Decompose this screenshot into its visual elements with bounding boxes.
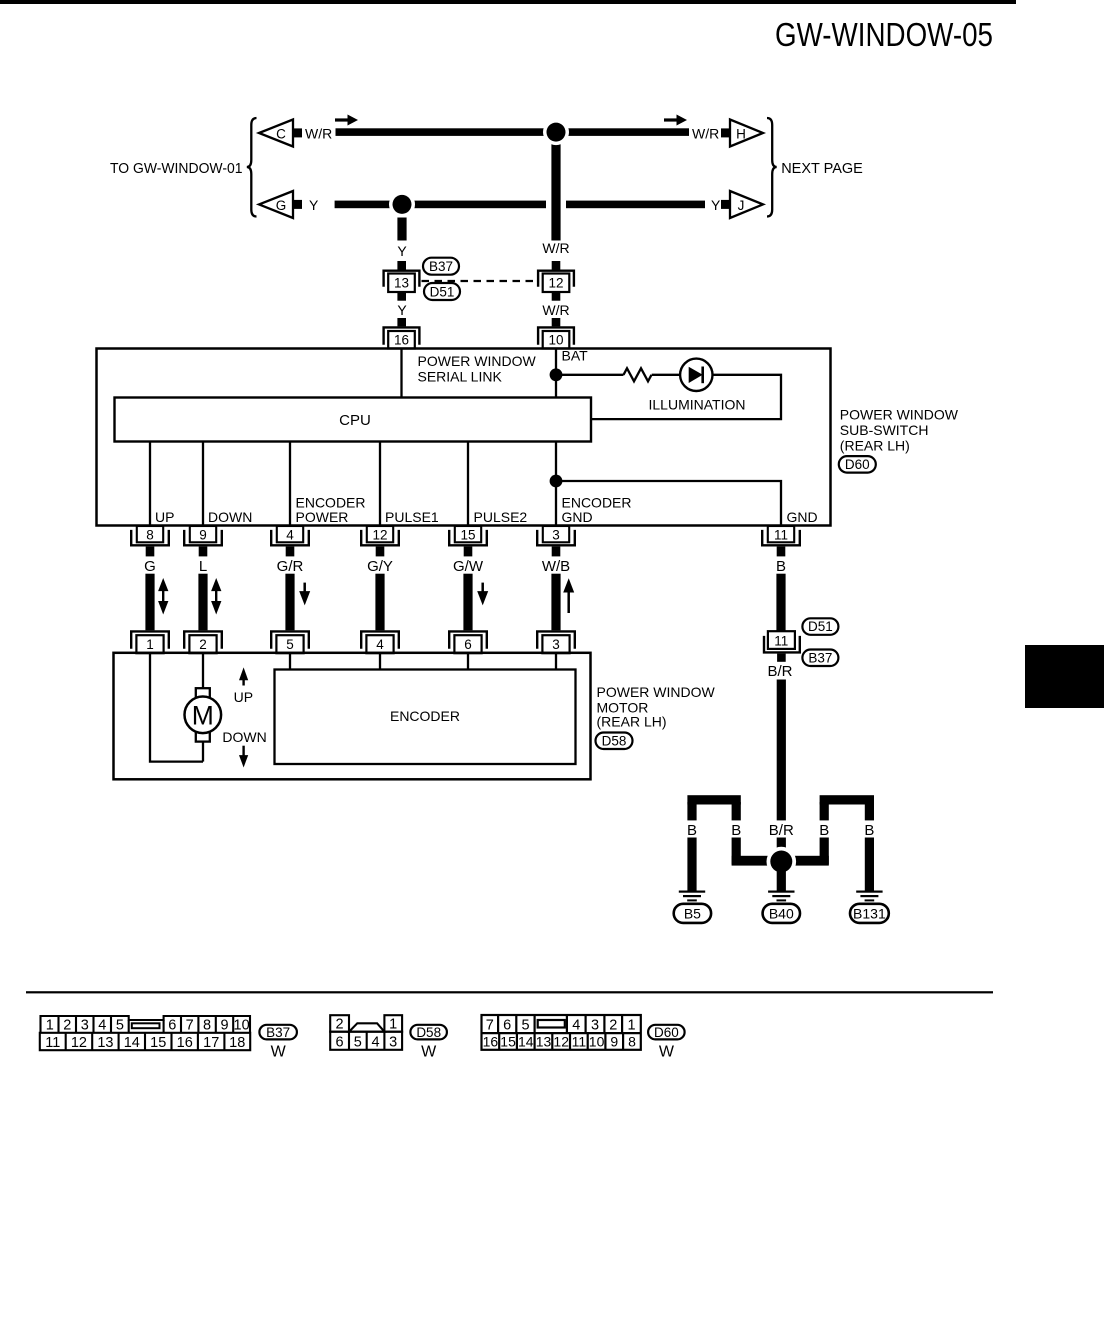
svg-text:TO GW-WINDOW-01: TO GW-WINDOW-01 — [110, 161, 243, 177]
oval B5 — [674, 904, 711, 923]
svg-text:5: 5 — [116, 1018, 124, 1034]
svg-text:B: B — [819, 822, 829, 839]
connector 4 — [361, 631, 399, 648]
svg-text:PULSE2: PULSE2 — [474, 509, 528, 525]
svg-text:B131: B131 — [853, 905, 886, 921]
svg-text:DOWN: DOWN — [222, 729, 266, 745]
left ground loop right leg lower — [732, 838, 741, 865]
svg-text:15: 15 — [460, 527, 475, 542]
junction dot ground — [767, 847, 797, 877]
svg-text:W: W — [659, 1044, 675, 1061]
svg-text:10: 10 — [234, 1018, 250, 1034]
svg-text:B: B — [687, 822, 697, 839]
junction node BAT — [550, 368, 563, 381]
svg-text:D60: D60 — [845, 457, 870, 472]
svg-text:W/R: W/R — [305, 126, 332, 142]
svg-text:NEXT PAGE: NEXT PAGE — [781, 161, 863, 177]
svg-text:5: 5 — [354, 1034, 362, 1050]
wire CPU to pin 3 — [555, 442, 557, 526]
svg-text:B5: B5 — [684, 905, 701, 921]
svg-text:B37: B37 — [429, 259, 453, 274]
connector table D60 — [482, 1015, 641, 1050]
connector 3 motor — [537, 631, 575, 648]
pin 10 — [538, 327, 574, 344]
connector 13 — [384, 271, 420, 287]
wire CPU to pin 15 — [467, 442, 469, 526]
svg-text:14: 14 — [124, 1035, 140, 1051]
left brace — [247, 118, 257, 217]
svg-text:D51: D51 — [808, 619, 833, 634]
svg-text:1: 1 — [627, 1018, 635, 1034]
wire resistor to diode — [652, 374, 680, 376]
svg-text:B/R: B/R — [769, 822, 794, 839]
wire G/R — [285, 574, 294, 631]
wire stub below connector 13 — [397, 292, 406, 301]
wire G — [145, 574, 154, 631]
connector 12 — [538, 271, 574, 287]
wire diode to corner — [592, 375, 781, 419]
left ground loop top bar — [687, 795, 740, 804]
right ground loop left leg lower — [820, 838, 829, 865]
svg-text:15: 15 — [150, 1035, 166, 1051]
svg-text:6: 6 — [168, 1018, 176, 1034]
CPU box — [115, 398, 592, 442]
svg-text:J: J — [738, 198, 745, 213]
terminal square G — [293, 200, 302, 209]
svg-text:Y: Y — [397, 243, 407, 259]
arrow down motor — [242, 746, 244, 756]
oval D51 bottom — [424, 283, 460, 300]
svg-text:W/R: W/R — [692, 126, 719, 142]
pin 12 — [367, 526, 393, 542]
wire Y bus left segment — [335, 201, 546, 209]
svg-text:C: C — [276, 127, 286, 142]
wire stub above pin 10 — [552, 318, 561, 326]
svg-text:3: 3 — [389, 1034, 397, 1050]
wire BAT branch to illumination — [556, 374, 624, 376]
svg-text:L: L — [199, 558, 207, 575]
svg-text:16: 16 — [483, 1034, 499, 1050]
svg-text:Y: Y — [309, 197, 319, 213]
svg-text:18: 18 — [229, 1035, 245, 1051]
svg-text:11: 11 — [774, 527, 788, 542]
svg-text:2: 2 — [609, 1018, 617, 1034]
wire conn1 to motor — [150, 654, 203, 762]
junction node encoder gnd — [550, 475, 563, 488]
svg-text:16: 16 — [394, 333, 409, 348]
svg-text:16: 16 — [177, 1035, 193, 1051]
svg-text:9: 9 — [220, 1018, 228, 1034]
svg-text:GND: GND — [562, 509, 593, 525]
wire W/R vertical drop — [551, 137, 560, 241]
svg-text:4: 4 — [98, 1018, 106, 1034]
svg-text:G: G — [276, 198, 287, 213]
wire B/R long upper — [777, 680, 786, 821]
left ground loop bottom bar — [732, 856, 782, 866]
power window motor box D58 — [114, 653, 591, 780]
wire conn3 to encoder — [555, 654, 557, 670]
svg-text:POWER: POWER — [296, 509, 349, 525]
svg-text:D58: D58 — [416, 1025, 441, 1040]
left ground loop left leg upper — [687, 802, 696, 820]
svg-text:G/Y: G/Y — [367, 558, 393, 575]
pin 3 — [543, 526, 569, 542]
wire Y vertical drop — [397, 218, 406, 241]
svg-text:B: B — [776, 558, 786, 575]
svg-text:2: 2 — [336, 1016, 344, 1032]
oval D58 footer — [410, 1025, 447, 1040]
right ground loop right leg upper — [865, 802, 874, 820]
svg-text:8: 8 — [628, 1034, 636, 1050]
svg-text:G/R: G/R — [277, 558, 304, 575]
svg-text:H: H — [736, 127, 746, 142]
svg-text:13: 13 — [394, 276, 409, 291]
svg-text:ILLUMINATION: ILLUMINATION — [649, 397, 746, 413]
junction dot W/R bus — [543, 119, 569, 145]
oval B37 top — [423, 258, 459, 275]
wire encoder gnd rail to pin 11 — [556, 481, 781, 525]
oval D60 footer — [648, 1025, 685, 1040]
arrow down G/R — [303, 583, 306, 593]
svg-text:D60: D60 — [654, 1025, 679, 1040]
wire B — [776, 574, 785, 632]
wire W/R top bus — [336, 128, 690, 136]
direction arrow right — [664, 118, 678, 121]
svg-text:W/R: W/R — [542, 240, 569, 256]
svg-text:9: 9 — [199, 527, 207, 542]
connector arrow H — [730, 120, 763, 147]
wire pin10 to CPU — [555, 350, 557, 398]
svg-text:Y: Y — [397, 302, 407, 318]
connector 1 — [131, 631, 169, 648]
svg-text:3: 3 — [552, 527, 560, 542]
wire conn2 to motor — [202, 654, 204, 689]
terminal square H — [721, 128, 730, 137]
svg-text:17: 17 — [203, 1035, 219, 1051]
svg-text:BAT: BAT — [562, 348, 589, 364]
left ground loop left leg lower — [687, 838, 696, 891]
wire L — [198, 574, 207, 631]
svg-text:8: 8 — [203, 1018, 211, 1034]
svg-text:POWER WINDOW: POWER WINDOW — [840, 407, 959, 423]
terminal square J — [721, 200, 730, 209]
pin 8 — [137, 526, 163, 542]
connector 6 — [449, 631, 487, 648]
svg-text:4: 4 — [371, 1034, 379, 1050]
connector 2 — [184, 631, 222, 648]
footer rule — [26, 991, 993, 993]
arrow up W/B — [563, 578, 574, 592]
motor M — [196, 688, 210, 697]
svg-text:3: 3 — [81, 1018, 89, 1034]
svg-text:(REAR LH): (REAR LH) — [597, 714, 667, 730]
svg-text:GND: GND — [787, 509, 818, 525]
svg-text:Y: Y — [711, 197, 721, 213]
svg-text:7: 7 — [486, 1018, 494, 1034]
svg-text:11: 11 — [774, 633, 788, 648]
wire G/W — [463, 574, 472, 631]
svg-text:POWER WINDOW: POWER WINDOW — [597, 684, 716, 700]
wire motor bottom — [202, 741, 204, 762]
svg-text:B: B — [731, 822, 741, 839]
svg-text:W/B: W/B — [542, 558, 570, 575]
junction dot Y bus — [389, 191, 415, 217]
svg-text:6: 6 — [336, 1034, 344, 1050]
header bar — [0, 0, 1016, 4]
wire CPU to pin 12 — [379, 442, 381, 526]
svg-text:12: 12 — [71, 1035, 87, 1051]
svg-text:12: 12 — [372, 527, 387, 542]
wire stub below connector 11 — [777, 654, 786, 662]
connector 11 inline — [768, 631, 795, 649]
svg-text:4: 4 — [572, 1018, 580, 1034]
connector arrow G — [259, 191, 293, 218]
svg-text:13: 13 — [97, 1035, 113, 1051]
right brace — [767, 118, 777, 217]
oval D58 — [596, 733, 633, 750]
wire stub above pin 16 — [397, 318, 406, 326]
oval B131 — [850, 904, 889, 923]
arrow up-down L — [211, 578, 221, 591]
svg-text:M: M — [192, 700, 214, 730]
svg-text:W: W — [271, 1044, 287, 1061]
wire conn5 to encoder — [289, 654, 291, 670]
svg-text:D51: D51 — [430, 284, 455, 299]
svg-text:1: 1 — [146, 637, 154, 652]
right ground loop right leg lower — [865, 838, 874, 891]
svg-text:11: 11 — [572, 1034, 587, 1050]
wire Y bus right segment — [566, 201, 705, 209]
svg-text:POWER WINDOW: POWER WINDOW — [418, 353, 537, 369]
svg-text:6: 6 — [503, 1018, 511, 1034]
wire conn4 to encoder — [379, 654, 381, 670]
svg-text:CPU: CPU — [339, 412, 371, 429]
oval B40 — [763, 904, 800, 923]
right ground loop bottom bar — [781, 856, 829, 866]
svg-text:1: 1 — [46, 1018, 54, 1034]
svg-text:W/R: W/R — [542, 302, 569, 318]
oval B37 right — [802, 650, 838, 667]
svg-text:8: 8 — [146, 527, 154, 542]
terminal square C — [293, 128, 302, 137]
wire stub above connector 13 — [397, 261, 406, 270]
svg-text:11: 11 — [45, 1035, 60, 1051]
right ground loop left leg upper — [820, 802, 829, 820]
pin 16 — [384, 327, 420, 344]
svg-text:B: B — [864, 822, 874, 839]
svg-text:3: 3 — [591, 1018, 599, 1034]
pin 11 — [768, 526, 794, 542]
svg-text:1: 1 — [389, 1016, 397, 1032]
svg-text:G: G — [144, 558, 156, 575]
svg-text:5: 5 — [521, 1018, 529, 1034]
svg-text:SUB-SWITCH: SUB-SWITCH — [840, 422, 929, 438]
svg-text:14: 14 — [518, 1034, 534, 1050]
wire stub below connector 12 — [552, 292, 561, 301]
svg-text:4: 4 — [286, 527, 294, 542]
svg-text:PULSE1: PULSE1 — [385, 509, 439, 525]
svg-text:(REAR LH): (REAR LH) — [840, 438, 910, 454]
ground symbol B131 — [856, 891, 882, 893]
svg-text:B/R: B/R — [767, 663, 792, 680]
svg-text:G/W: G/W — [453, 558, 484, 575]
svg-text:2: 2 — [199, 637, 207, 652]
svg-text:9: 9 — [610, 1034, 618, 1050]
connector 5 — [271, 631, 309, 648]
direction arrow left — [335, 118, 349, 121]
wire pin16 to CPU — [400, 350, 402, 398]
wire CPU to pin 4 — [289, 442, 291, 526]
svg-text:B37: B37 — [266, 1025, 290, 1040]
wire CPU to pin 8 — [149, 442, 151, 526]
svg-text:B40: B40 — [769, 905, 794, 921]
svg-text:SERIAL LINK: SERIAL LINK — [418, 369, 503, 385]
left ground loop right leg upper — [732, 802, 741, 820]
ground symbol B40 — [768, 891, 794, 893]
power window sub-switch box D60 — [97, 349, 831, 526]
arrow down G/W — [481, 583, 484, 593]
svg-text:12: 12 — [548, 276, 563, 291]
encoder box — [275, 670, 576, 765]
oval B37 footer — [259, 1025, 297, 1040]
svg-text:12: 12 — [553, 1034, 569, 1050]
svg-text:ENCODER: ENCODER — [390, 708, 460, 724]
oval D60 — [839, 456, 876, 473]
wire W/B — [551, 574, 560, 631]
wire conn6 to encoder — [467, 654, 469, 670]
svg-text:DOWN: DOWN — [208, 509, 252, 525]
svg-text:6: 6 — [464, 637, 472, 652]
svg-text:W: W — [421, 1044, 437, 1061]
wire CPU to pin 9 — [202, 442, 204, 526]
svg-text:B37: B37 — [808, 650, 832, 665]
svg-text:7: 7 — [186, 1018, 194, 1034]
svg-text:5: 5 — [286, 637, 294, 652]
svg-text:UP: UP — [234, 689, 253, 705]
svg-text:10: 10 — [548, 333, 563, 348]
arrow up motor — [242, 678, 244, 686]
svg-text:13: 13 — [536, 1034, 552, 1050]
pin 4 — [277, 526, 303, 542]
svg-text:3: 3 — [552, 637, 560, 652]
wire B/R long lower — [777, 838, 786, 871]
ground symbol B5 — [679, 891, 705, 893]
wire B/R to ground — [777, 870, 786, 891]
arrow up-down G — [158, 578, 168, 591]
connector table D58 — [330, 1015, 402, 1050]
svg-text:D58: D58 — [602, 734, 627, 749]
svg-text:15: 15 — [500, 1034, 516, 1050]
oval D51 right — [802, 618, 838, 635]
right ground loop top bar — [820, 795, 874, 804]
pin 15 — [455, 526, 481, 542]
svg-text:UP: UP — [155, 509, 174, 525]
svg-text:2: 2 — [63, 1018, 71, 1034]
connector table B37 — [40, 1016, 250, 1050]
wire stub above connector 12 — [552, 261, 561, 270]
svg-text:GW-WINDOW-05: GW-WINDOW-05 — [775, 16, 993, 53]
page tab — [1025, 645, 1104, 708]
svg-text:4: 4 — [376, 637, 384, 652]
pin 9 — [190, 526, 216, 542]
resistor illumination — [624, 368, 652, 381]
svg-text:10: 10 — [589, 1034, 605, 1050]
dashed connector link 13-12 — [422, 280, 537, 282]
connector arrow C — [259, 120, 293, 147]
diode LED illumination — [680, 359, 712, 391]
wire G/Y — [375, 574, 384, 631]
connector arrow J — [730, 191, 763, 218]
